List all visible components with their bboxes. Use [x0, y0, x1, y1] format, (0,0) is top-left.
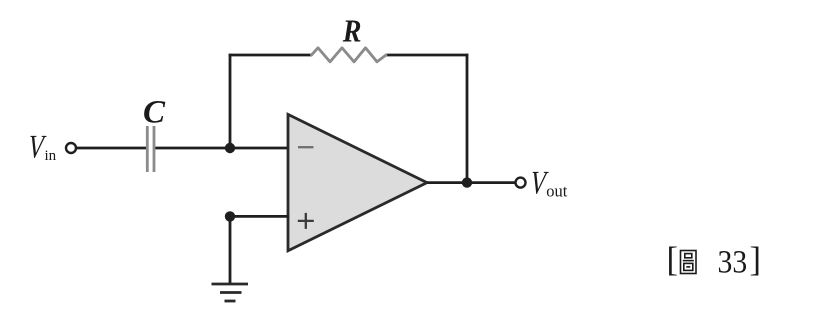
figure caption [圖 33] [667, 241, 762, 280]
terminal: V_out open circle [516, 178, 526, 188]
svg-text:]: ] [750, 241, 762, 279]
wire: top rail right segment from resistor to right corner [386, 54, 468, 57]
wire: top rail left segment to resistor [229, 54, 312, 57]
ground symbol [212, 284, 249, 301]
wire: V_in terminal to capacitor left plate [77, 147, 146, 150]
svg-text:in: in [45, 148, 57, 164]
svg-text:C: C [143, 95, 166, 131]
resistor R (zigzag body) [312, 48, 387, 62]
svg-text:R: R [342, 13, 362, 49]
value label C [143, 95, 166, 131]
wire: ground drop [229, 216, 232, 283]
svg-text:33: 33 [718, 243, 748, 280]
wire: non-inverting input to ground junction [228, 215, 289, 218]
node: inverting-input junction dot [225, 143, 235, 153]
wire: right vertical drop from top rail to output node [466, 54, 469, 184]
node: output junction dot [462, 177, 472, 187]
wire: vertical feedback riser from inverting node up to top rail [229, 54, 232, 149]
caption number 33 [718, 243, 748, 280]
wire: capacitor right plate to inverting-input junction [155, 147, 232, 150]
svg-text:out: out [546, 182, 568, 201]
op-amp U1 (triangle body) [288, 114, 427, 250]
value label R [342, 13, 362, 49]
terminal: V_in open circle [66, 143, 76, 153]
op-amp non-inverting input marker (plus) [298, 213, 314, 229]
wire: op-amp output to output terminal [427, 181, 515, 184]
svg-text:[: [ [667, 241, 679, 279]
capacitor C (two gray plates) [147, 126, 154, 172]
label V_out [529, 165, 567, 201]
caption hanzi 圖 (drawn) [681, 251, 697, 274]
wire: junction to op-amp inverting input [228, 147, 288, 150]
label V_in [27, 129, 56, 165]
node: non-inverting ground junction dot [225, 211, 235, 221]
op-amp inverting input marker (minus) [298, 146, 314, 148]
